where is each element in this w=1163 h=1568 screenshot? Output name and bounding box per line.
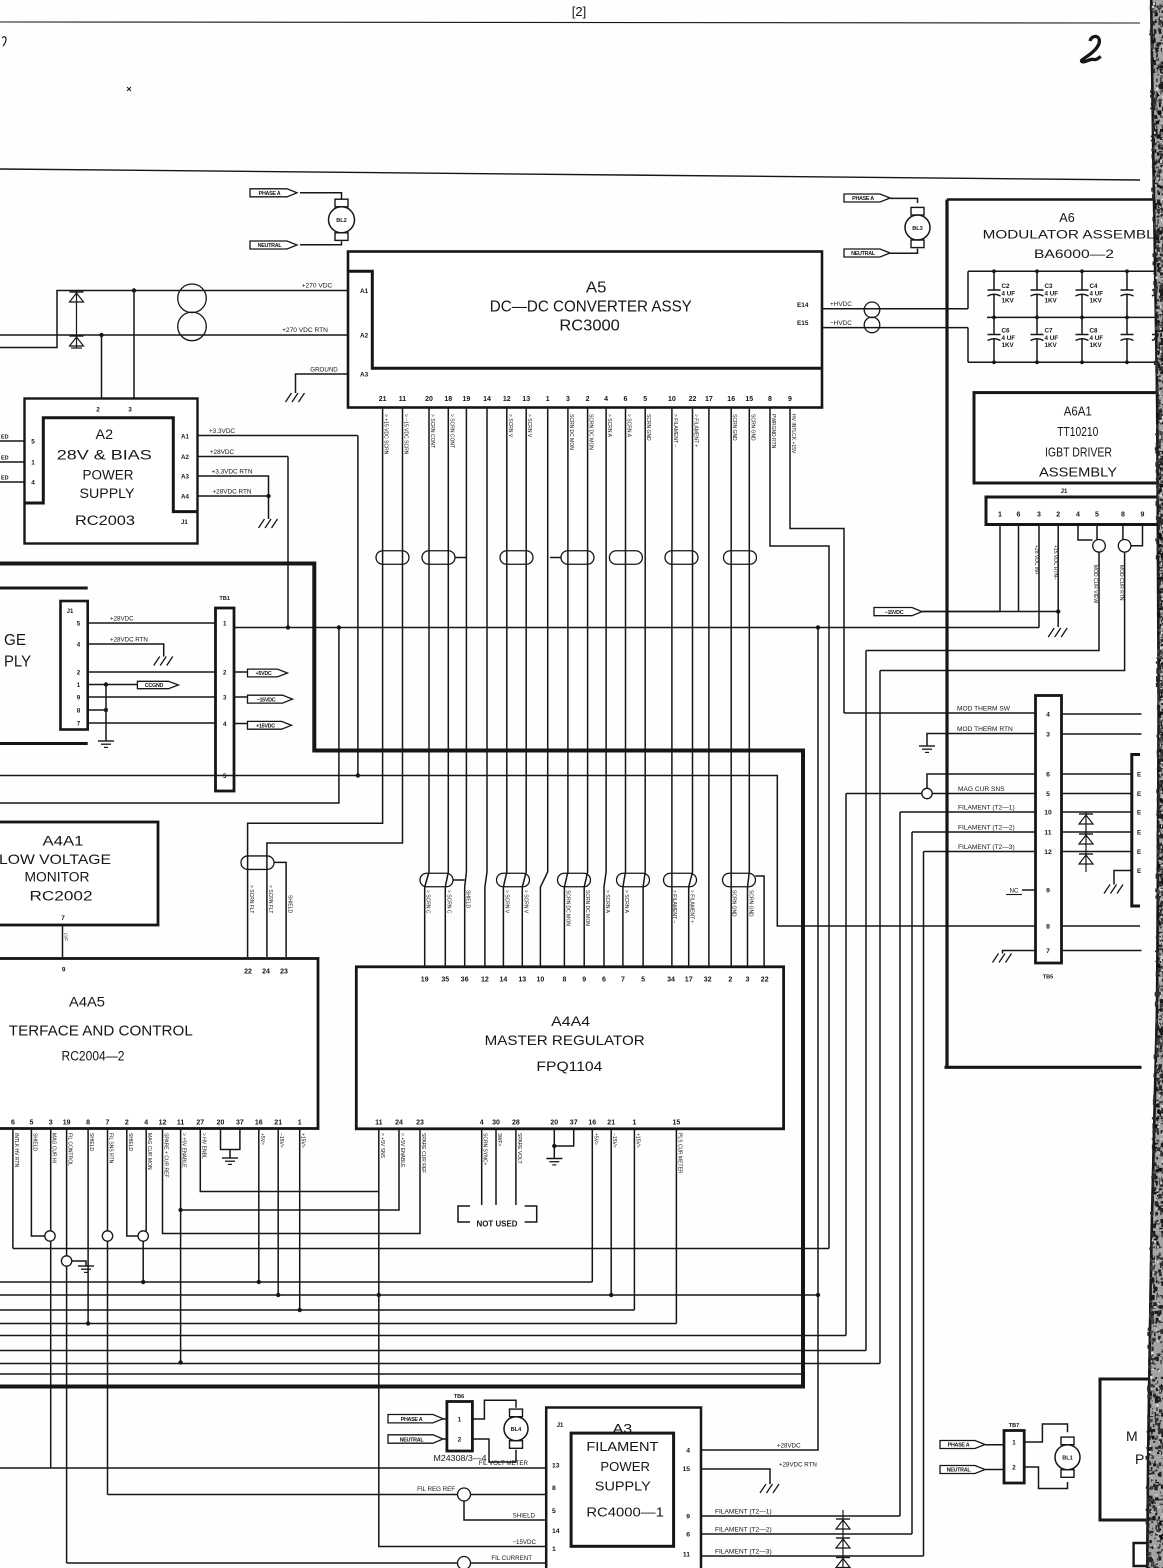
capacitor C7	[1036, 317, 1038, 334]
svg-text:3: 3	[566, 396, 570, 403]
wire TB5-4 right	[1062, 713, 1163, 715]
svg-text:+28VDC: +28VDC	[110, 616, 134, 623]
wire A5 to A4A4	[689, 408, 693, 967]
capacitor partial at edge	[1157, 271, 1159, 290]
svg-text:11: 11	[683, 1551, 690, 1558]
svg-text:2: 2	[125, 1120, 129, 1127]
bracket NOT USED	[458, 1206, 470, 1222]
svg-text:4: 4	[77, 641, 81, 648]
svg-text:MAG CUR MON: MAG CUR MON	[146, 1133, 152, 1170]
flag PHASE A (TB7)	[940, 1441, 985, 1449]
svg-text:A3: A3	[613, 1421, 633, 1436]
wire +270 VDC RTN from left	[0, 334, 348, 336]
flag -15VDC	[248, 695, 293, 703]
wire A4A4-21 to bus	[610, 1129, 612, 1295]
wire pin19 lower	[66, 1266, 68, 1563]
svg-text:13: 13	[522, 396, 530, 403]
svg-text:9: 9	[686, 1513, 690, 1520]
svg-text:> SCRN V: > SCRN V	[503, 890, 509, 914]
wire RTN to ground	[268, 496, 270, 519]
wire TB7-2 to BL1	[1024, 1467, 1067, 1489]
junction A4A4-11 bus	[377, 1293, 381, 1297]
svg-text:1: 1	[31, 460, 35, 467]
svg-text:3: 3	[223, 694, 227, 701]
svg-text:SCRN GND: SCRN GND	[645, 414, 651, 441]
svg-text:16: 16	[588, 1120, 596, 1127]
svg-text:> SCRN C: > SCRN C	[425, 890, 431, 914]
svg-text:7: 7	[1046, 948, 1050, 955]
svg-text:A2: A2	[360, 333, 369, 340]
svg-text:CCGND: CCGND	[145, 683, 164, 689]
svg-text:> SCRN A: > SCRN A	[604, 890, 610, 914]
svg-text:19: 19	[421, 977, 429, 984]
svg-text:15: 15	[682, 1466, 690, 1473]
svg-text:+28VDC RTN: +28VDC RTN	[779, 1462, 817, 1469]
module A5 DC-DC Converter outer box	[348, 252, 822, 408]
svg-text:A5: A5	[586, 279, 607, 296]
svg-text:7: 7	[77, 720, 81, 727]
svg-text:> FILAMENT +: > FILAMENT +	[689, 890, 695, 923]
wire NC stub	[1022, 889, 1036, 891]
module low voltage supply (cut) top edge	[0, 587, 88, 590]
wire J1-5 lower to bus	[866, 552, 1099, 650]
svg-text:−15VDC: −15VDC	[885, 610, 904, 616]
chassis ground A3 RTN	[760, 1484, 766, 1493]
svg-text:SHIELD: SHIELD	[31, 1133, 37, 1151]
wire TB5-12 right to E	[1062, 851, 1132, 853]
svg-text:SHIELD: SHIELD	[88, 1133, 94, 1151]
svg-text:27: 27	[196, 1120, 204, 1127]
wire A5 to A4A4	[564, 408, 568, 967]
svg-text:P: P	[1135, 1451, 1144, 1467]
wire pin11 lower to bus	[180, 1210, 182, 1363]
wire A5 to A4A4	[503, 408, 506, 967]
svg-text:> FILAMENT +: > FILAMENT +	[693, 414, 699, 447]
wire +HVDC	[822, 308, 968, 310]
wire A4A4-15 to bus	[675, 1129, 677, 1324]
bead connector pin3	[45, 1231, 55, 1241]
svg-text:19: 19	[463, 396, 471, 403]
svg-text:2: 2	[1012, 1465, 1016, 1472]
svg-text:4 UF: 4 UF	[1045, 291, 1059, 298]
terminal block TB7	[1004, 1431, 1024, 1484]
wire A4A5-4 upper	[145, 1129, 147, 1232]
wire +HVDC riser to cap bus	[967, 271, 969, 309]
svg-text:SPARE VOLT: SPARE VOLT	[516, 1133, 522, 1164]
wire FILAMENT T2-1 (TB5)	[900, 811, 1036, 813]
wire A4A5-3 with bead	[50, 1129, 52, 1231]
earth ground A4A4 20/37	[546, 1158, 562, 1160]
wire FIL CURRENT	[67, 1562, 458, 1564]
blower BL4	[510, 1409, 523, 1417]
terminal block TB5	[1036, 696, 1062, 964]
A4A5 top pins	[244, 969, 288, 976]
svg-text:1KV: 1KV	[1045, 342, 1058, 349]
wire FILAMENT T2-2	[701, 1533, 912, 1535]
module A2 outer box	[25, 399, 198, 544]
svg-text:NEUTRAL: NEUTRAL	[947, 1468, 972, 1474]
svg-text:> SCRN A: > SCRN A	[623, 890, 629, 914]
svg-text:SCRN DC MON: SCRN DC MON	[564, 890, 570, 926]
svg-text:A4A5: A4A5	[69, 995, 105, 1010]
svg-text:10: 10	[668, 396, 676, 403]
wire +28VDC riser down	[287, 457, 289, 628]
bead MAG CUR SNS	[922, 788, 932, 798]
wire A4A5-6 to bus	[12, 1129, 14, 1249]
svg-text:2: 2	[1056, 512, 1060, 519]
svg-text:POWER: POWER	[83, 467, 134, 482]
wire NEUTRAL to BL3	[890, 249, 918, 254]
wire A5-8 jog to bus	[770, 408, 829, 1249]
module A6 left edge	[945, 200, 948, 1068]
twisted pair oval	[376, 551, 409, 565]
svg-text:SCRN SYNC+: SCRN SYNC+	[482, 1133, 488, 1165]
svg-text:+5V>: +5V>	[592, 1133, 598, 1145]
module A3 outer box	[546, 1408, 701, 1568]
earth ground A4A5 20/37	[222, 1157, 238, 1159]
capacitor C3	[1036, 271, 1038, 290]
svg-text:SUPPLY: SUPPLY	[595, 1479, 652, 1493]
module M P box (cut)	[1100, 1379, 1163, 1520]
wire TB5-3 right	[1062, 733, 1163, 735]
svg-text:8: 8	[562, 977, 566, 984]
svg-text:NC: NC	[1010, 888, 1019, 895]
svg-text:PHASE A: PHASE A	[852, 196, 874, 202]
svg-text:24: 24	[395, 1120, 403, 1127]
corner box bottom right (cut)	[1134, 1543, 1160, 1566]
earth ground LV supply	[98, 740, 114, 742]
capacitor C4	[1081, 271, 1083, 290]
bead connector pin4	[138, 1231, 148, 1241]
wire A5-21 to A4A5-22	[248, 408, 383, 958]
svg-text:FILAMENT (T2—2): FILAMENT (T2—2)	[958, 825, 1015, 832]
svg-text:E14: E14	[797, 302, 809, 309]
twist stub row1	[455, 557, 466, 559]
wire A4A5-20/37 to ground	[221, 1129, 240, 1150]
connector E-box	[1132, 755, 1140, 907]
TB5 pin numbers	[1044, 711, 1052, 955]
svg-text:15: 15	[673, 1120, 681, 1127]
svg-text:M: M	[1126, 1428, 1138, 1444]
svg-text:1KV: 1KV	[1090, 342, 1103, 349]
wire +28VDC from A2	[198, 456, 289, 458]
chassis ground A2 RTN	[259, 519, 265, 528]
svg-text:4 UF: 4 UF	[1002, 291, 1016, 298]
svg-text:MAG CUR HI: MAG CUR HI	[51, 1133, 57, 1163]
bus line 1373	[0, 1373, 801, 1375]
svg-text:LVF: LVF	[64, 933, 69, 941]
svg-text:5: 5	[1046, 791, 1050, 798]
bus line 1295 (+28)	[0, 1294, 818, 1296]
svg-text:11: 11	[399, 396, 407, 403]
svg-text:E: E	[1137, 809, 1141, 816]
svg-text:32: 32	[704, 977, 712, 984]
svg-text:NOT USED: NOT USED	[477, 1220, 518, 1229]
svg-text:> +5V SNS: > +5V SNS	[379, 1133, 385, 1159]
wire +3.3VDC from A2	[198, 435, 358, 437]
svg-text:SCRN DC MON: SCRN DC MON	[568, 414, 574, 450]
svg-text:34: 34	[667, 977, 675, 984]
svg-text:2: 2	[223, 669, 227, 676]
svg-text:8: 8	[768, 396, 772, 403]
wire A5 to A4A4	[540, 408, 547, 967]
svg-text:FILAMENT (T2—3): FILAMENT (T2—3)	[715, 1549, 772, 1556]
bead J1-8	[1118, 540, 1131, 553]
svg-text:−15V>: −15V>	[611, 1133, 617, 1148]
flag PHASE A (BL3)	[844, 194, 890, 202]
svg-text:5: 5	[552, 1508, 556, 1515]
A6A1 J1 pin numbers	[998, 512, 1145, 519]
svg-text:PWRGND RTN: PWRGND RTN	[770, 414, 776, 449]
svg-text:E: E	[1137, 791, 1141, 798]
svg-text:> FILAMENT −: > FILAMENT −	[671, 890, 677, 923]
wire TB5-6 hook	[927, 774, 1036, 788]
wire FIL REG REF	[108, 1494, 458, 1496]
diode stack TB5 filament	[1085, 812, 1087, 872]
bead FIL CURRENT	[458, 1557, 471, 1568]
svg-text:4: 4	[1076, 512, 1080, 519]
svg-text:SCRN DC MON: SCRN DC MON	[588, 414, 594, 450]
junction J1-1	[104, 682, 108, 686]
svg-text:FIL REG REF: FIL REG REF	[417, 1486, 455, 1493]
svg-text:PHASE A: PHASE A	[948, 1443, 970, 1449]
wire branch x339 down	[0, 628, 339, 804]
flag NEUTRAL (BL2)	[250, 241, 297, 249]
junction +3.3 riser on 775 line	[356, 773, 360, 777]
svg-text:1: 1	[1012, 1440, 1016, 1447]
svg-text:+28VDC RTN: +28VDC RTN	[110, 637, 148, 644]
svg-text:E: E	[1137, 771, 1141, 778]
wire +3.3VDC RTN from A2	[198, 476, 269, 496]
A4A4 top pin numbers	[421, 977, 769, 984]
blower BL2	[335, 199, 348, 207]
diode CR pair on 270V bus	[76, 291, 78, 349]
svg-text:ASSEMBLY: ASSEMBLY	[1039, 465, 1117, 480]
A5 bottom pin numbers	[379, 396, 792, 403]
svg-text:A2: A2	[96, 426, 114, 442]
svg-text:20: 20	[217, 1120, 225, 1127]
svg-text:4 UF: 4 UF	[1090, 335, 1104, 342]
svg-text:SCRN GND: SCRN GND	[730, 890, 736, 917]
wire -HVDC	[822, 327, 968, 329]
wire E6 ground	[1114, 871, 1132, 885]
svg-text:8: 8	[552, 1485, 556, 1492]
wire A4A4-20/37 ground	[554, 1129, 573, 1146]
svg-text:RC3000: RC3000	[559, 318, 620, 335]
connector J1 box of LV supply	[61, 601, 88, 730]
wire A4A5-1 to bus	[299, 1129, 301, 1311]
svg-text:1: 1	[632, 1120, 636, 1127]
svg-text:−15VDC: −15VDC	[512, 1539, 536, 1546]
svg-text:A1: A1	[181, 434, 189, 441]
twisted pair oval	[609, 551, 642, 565]
twisted pair oval row2	[617, 873, 650, 887]
wire +3.3VDC riser down	[357, 436, 359, 776]
svg-text:22: 22	[689, 396, 697, 403]
chassis ground at A5 A3	[286, 393, 292, 402]
svg-text:SUPPLY: SUPPLY	[80, 486, 135, 501]
svg-text:4: 4	[686, 1447, 690, 1454]
module A6 top edge	[947, 198, 1163, 201]
flag PHASE A (TB6)	[388, 1415, 443, 1423]
svg-text:[2]: [2]	[572, 4, 586, 19]
wire ED stub 1	[0, 440, 25, 442]
chassis ground J1-2	[1048, 628, 1054, 637]
svg-text:9: 9	[77, 694, 81, 701]
svg-text:NEUTRAL: NEUTRAL	[258, 243, 283, 249]
wire filament riser 900	[899, 812, 901, 1516]
wire FILAMENT T2-3	[701, 1555, 924, 1557]
svg-text:3: 3	[49, 1120, 53, 1127]
svg-text:24: 24	[262, 969, 270, 976]
svg-text:> −15 VDC SCRN: > −15 VDC SCRN	[403, 414, 409, 455]
wire A4A1 to A4A5	[62, 925, 64, 959]
svg-text:RC2002: RC2002	[30, 889, 93, 904]
wire +28VDC RTN A3	[701, 1469, 770, 1484]
E-box pin labels	[1137, 771, 1141, 875]
heavy bus wire	[0, 564, 803, 1387]
bus line 1323	[0, 1323, 676, 1325]
svg-text:TT10210: TT10210	[1057, 424, 1098, 439]
svg-text:SPARE CUR REF: SPARE CUR REF	[420, 1133, 426, 1173]
svg-text:4: 4	[144, 1120, 148, 1127]
svg-text:INTLK HV RTN: INTLK HV RTN	[13, 1133, 19, 1167]
svg-text:+15V>: +15V>	[634, 1133, 640, 1148]
svg-text:1: 1	[546, 396, 550, 403]
wire A5 to A4A4	[485, 408, 487, 967]
wire gnd riser J1-1/8	[105, 685, 107, 742]
svg-text:6: 6	[11, 1120, 15, 1127]
svg-text:E: E	[1137, 868, 1141, 875]
svg-text:11: 11	[1044, 829, 1051, 836]
wire SHIELD	[464, 1501, 546, 1520]
svg-text:A4A1: A4A1	[43, 832, 84, 848]
diode stack A3 filament	[842, 1510, 844, 1568]
top rule line	[0, 22, 1140, 23]
svg-text:6: 6	[1046, 771, 1050, 778]
module A6A1 box	[974, 393, 1163, 483]
upper border line	[0, 169, 1140, 180]
wire pin3 lower	[50, 1241, 52, 1468]
wire A4A4-16 to bus	[591, 1129, 593, 1282]
svg-text:7: 7	[61, 915, 65, 922]
svg-text:−15VDC: −15VDC	[257, 697, 276, 703]
earth ground mod therm rtn	[919, 745, 935, 747]
svg-text:MONITOR: MONITOR	[25, 870, 90, 885]
flag +5VDC	[248, 669, 288, 677]
svg-text:> SCRN V: > SCRN V	[522, 890, 528, 914]
svg-text:4: 4	[223, 721, 227, 728]
svg-text:3WF>: 3WF>	[496, 1133, 502, 1147]
svg-text:> FILAMENT −: > FILAMENT −	[672, 414, 678, 447]
module A2 inner outline	[25, 418, 198, 512]
svg-text:4 UF: 4 UF	[1045, 335, 1059, 342]
bead J1-5	[1093, 540, 1106, 553]
svg-text:J1: J1	[557, 1423, 564, 1429]
wire J1-1 to CCGND	[88, 684, 138, 686]
svg-text:5: 5	[641, 977, 645, 984]
twisted pair oval	[665, 551, 698, 565]
svg-text:C2: C2	[1002, 283, 1011, 290]
svg-text:9: 9	[582, 977, 586, 984]
junction +270 to A2 pin 3	[132, 288, 136, 292]
svg-text:5: 5	[223, 773, 227, 780]
wire +28VDC RTN J1-4	[88, 644, 164, 657]
wire TB7-1 to BL1	[1024, 1424, 1067, 1442]
svg-text:BL4: BL4	[511, 1427, 522, 1433]
svg-text:14: 14	[552, 1528, 560, 1535]
module A3 inner outline	[571, 1433, 674, 1546]
svg-text:J1: J1	[67, 609, 74, 615]
svg-text:1: 1	[77, 682, 81, 689]
svg-text:12: 12	[503, 396, 511, 403]
terminal block TB6	[447, 1402, 473, 1452]
svg-text:+28VDC: +28VDC	[777, 1443, 801, 1450]
svg-text:RC2003: RC2003	[75, 513, 135, 528]
svg-text:4 UF: 4 UF	[1090, 291, 1104, 298]
svg-text:RC4000—1: RC4000—1	[586, 1506, 664, 1520]
svg-text:SCRN GND: SCRN GND	[749, 414, 755, 441]
capacitor top bus	[968, 270, 1163, 272]
svg-text:FILAMENT (T2—1): FILAMENT (T2—1)	[958, 805, 1015, 812]
svg-text:5: 5	[77, 620, 81, 627]
svg-text:6: 6	[602, 977, 606, 984]
twisted pair oval	[561, 551, 594, 565]
flag NEUTRAL (BL3)	[844, 249, 890, 257]
handwritten sheet number 2	[1081, 36, 1100, 61]
svg-text:> HV ENBL: > HV ENBL	[200, 1133, 206, 1159]
wire filament riser 923	[923, 852, 925, 1557]
wire J1-4 jog to bead	[1078, 525, 1093, 541]
svg-text:SHIELD: SHIELD	[286, 895, 292, 913]
twisted pair oval row2	[723, 873, 756, 887]
svg-text:35: 35	[441, 977, 449, 984]
svg-text:5: 5	[643, 396, 647, 403]
svg-text:10: 10	[1044, 809, 1052, 816]
wire A5-11 to A4A5-24	[267, 408, 403, 958]
svg-text:J1: J1	[1061, 489, 1068, 495]
wire MOD THERM RTN	[927, 734, 1036, 747]
svg-text:TB1: TB1	[219, 596, 230, 602]
svg-text:2: 2	[728, 977, 732, 984]
svg-text:> +15 VDC SCRN: > +15 VDC SCRN	[383, 414, 389, 455]
wire FILAMENT T2-3 (TB5)	[924, 851, 1036, 853]
junction rail at x818	[816, 625, 820, 629]
wire J1-3 drop to +28 rail	[1038, 525, 1040, 628]
svg-text:J1: J1	[181, 520, 188, 526]
wire A5 to A4A4	[671, 408, 673, 967]
wire A5 to A4A4	[445, 408, 448, 967]
svg-text:7: 7	[621, 977, 625, 984]
wire A4A4-4 not used	[481, 1129, 483, 1205]
bead FIL REG REF	[458, 1488, 471, 1501]
svg-text:BL3: BL3	[912, 226, 923, 232]
svg-text:+270 VDC RTN: +270 VDC RTN	[282, 327, 328, 334]
svg-text:> SCRN C: > SCRN C	[445, 890, 451, 914]
svg-text:9: 9	[1046, 887, 1050, 894]
flag CCGND	[137, 681, 178, 688]
wire A5-9 to mod therm sw	[790, 408, 844, 714]
svg-text:SCRN GND: SCRN GND	[748, 890, 754, 917]
stray mark top-left	[2, 37, 6, 46]
svg-text:4 UF: 4 UF	[1002, 335, 1016, 342]
svg-text:9: 9	[1141, 512, 1145, 519]
capacitor bottom	[1126, 317, 1128, 334]
svg-text:1: 1	[458, 1417, 462, 1424]
svg-text:TB7: TB7	[1009, 1423, 1020, 1429]
wire TB5-7 right	[1062, 950, 1144, 952]
wire A4A5-2 jog	[127, 1129, 138, 1237]
